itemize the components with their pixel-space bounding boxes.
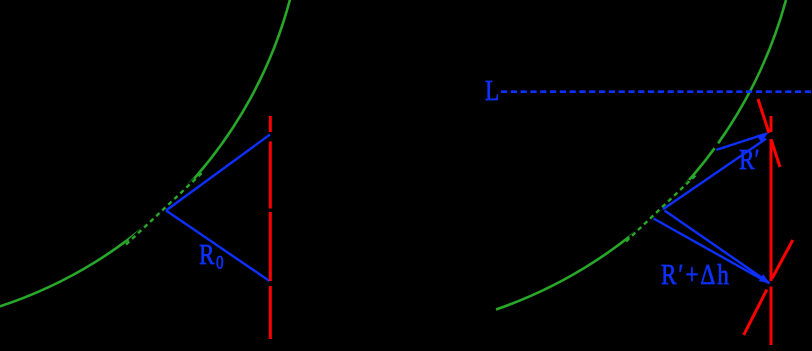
svg-text:R′: R′ [739, 144, 760, 176]
svg-text:0: 0 [216, 252, 224, 273]
svg-text:R: R [199, 239, 215, 271]
svg-text:R′+Δh: R′+Δh [661, 259, 731, 291]
svg-text:L: L [485, 75, 499, 107]
